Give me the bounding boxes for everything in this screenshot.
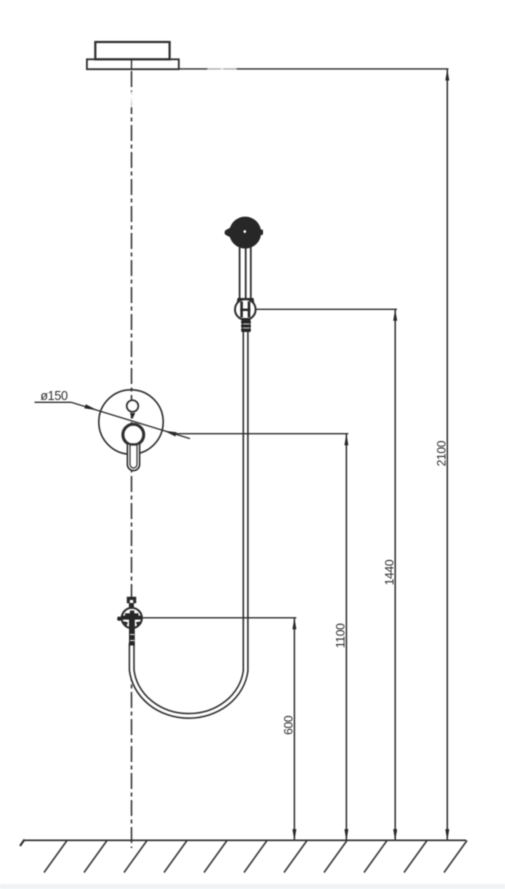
hose nut below slider [241, 318, 251, 332]
extension line from slider (1440) [256, 308, 397, 310]
mixer cartridge inner circle [123, 424, 144, 445]
white sparkle artifact on centerline [127, 92, 136, 108]
svg-text:2100: 2100 [435, 440, 449, 466]
leader diagonal line [71, 402, 190, 438]
dimension line 1100 [334, 434, 349, 841]
floor line start tick [20, 840, 25, 847]
slider holder [235, 299, 256, 320]
dimension line 600 [282, 618, 297, 841]
dimension line 2100 [435, 69, 450, 841]
arrow down 2100 [445, 829, 449, 841]
white sparkle artifact on ceiling line [207, 66, 237, 73]
wall outlet elbow bracket [127, 597, 136, 609]
arrow up 1440 [393, 309, 397, 321]
faint bottom strip [0, 884, 505, 889]
leader arrow left (points to circle, down-right) [84, 404, 97, 410]
dimension line 1440 [382, 309, 397, 840]
arrow down 600 [292, 829, 296, 841]
leader arrow right (points to circle, up-left) [164, 431, 177, 437]
extension line from mixer (1100) [172, 433, 348, 435]
arrow down 1100 [344, 829, 348, 841]
arrow up 1100 [344, 434, 348, 446]
diverter arrow [130, 413, 135, 419]
svg-text:ø150: ø150 [40, 389, 68, 403]
shower handle [240, 248, 251, 300]
handle end cap [237, 298, 255, 304]
wall outlet elbow ball circle [122, 608, 142, 628]
arrow up 2100 [445, 69, 449, 81]
mixer escutcheon circle [99, 390, 163, 454]
elbow outlet stub / hose nut [129, 620, 135, 646]
leader underline [35, 401, 72, 403]
extension line from elbow (600) [143, 617, 297, 619]
svg-text:600: 600 [282, 715, 296, 735]
lever handle [127, 444, 139, 471]
ceiling extension line [179, 68, 449, 70]
diverter knob small circle [127, 400, 139, 412]
shower head [225, 217, 263, 249]
ceiling flange [87, 42, 179, 69]
arrow down 1440 [393, 829, 397, 841]
floor hatching [44, 841, 467, 873]
hose (double-line flexible hose with U loop) [132, 330, 246, 716]
elbow internals [117, 611, 142, 627]
arrow up 600 [292, 618, 296, 630]
svg-text:1440: 1440 [382, 559, 396, 585]
floor line [23, 839, 466, 841]
centerline (dashed vertical axis) [131, 71, 133, 848]
svg-text:1100: 1100 [334, 623, 348, 648]
